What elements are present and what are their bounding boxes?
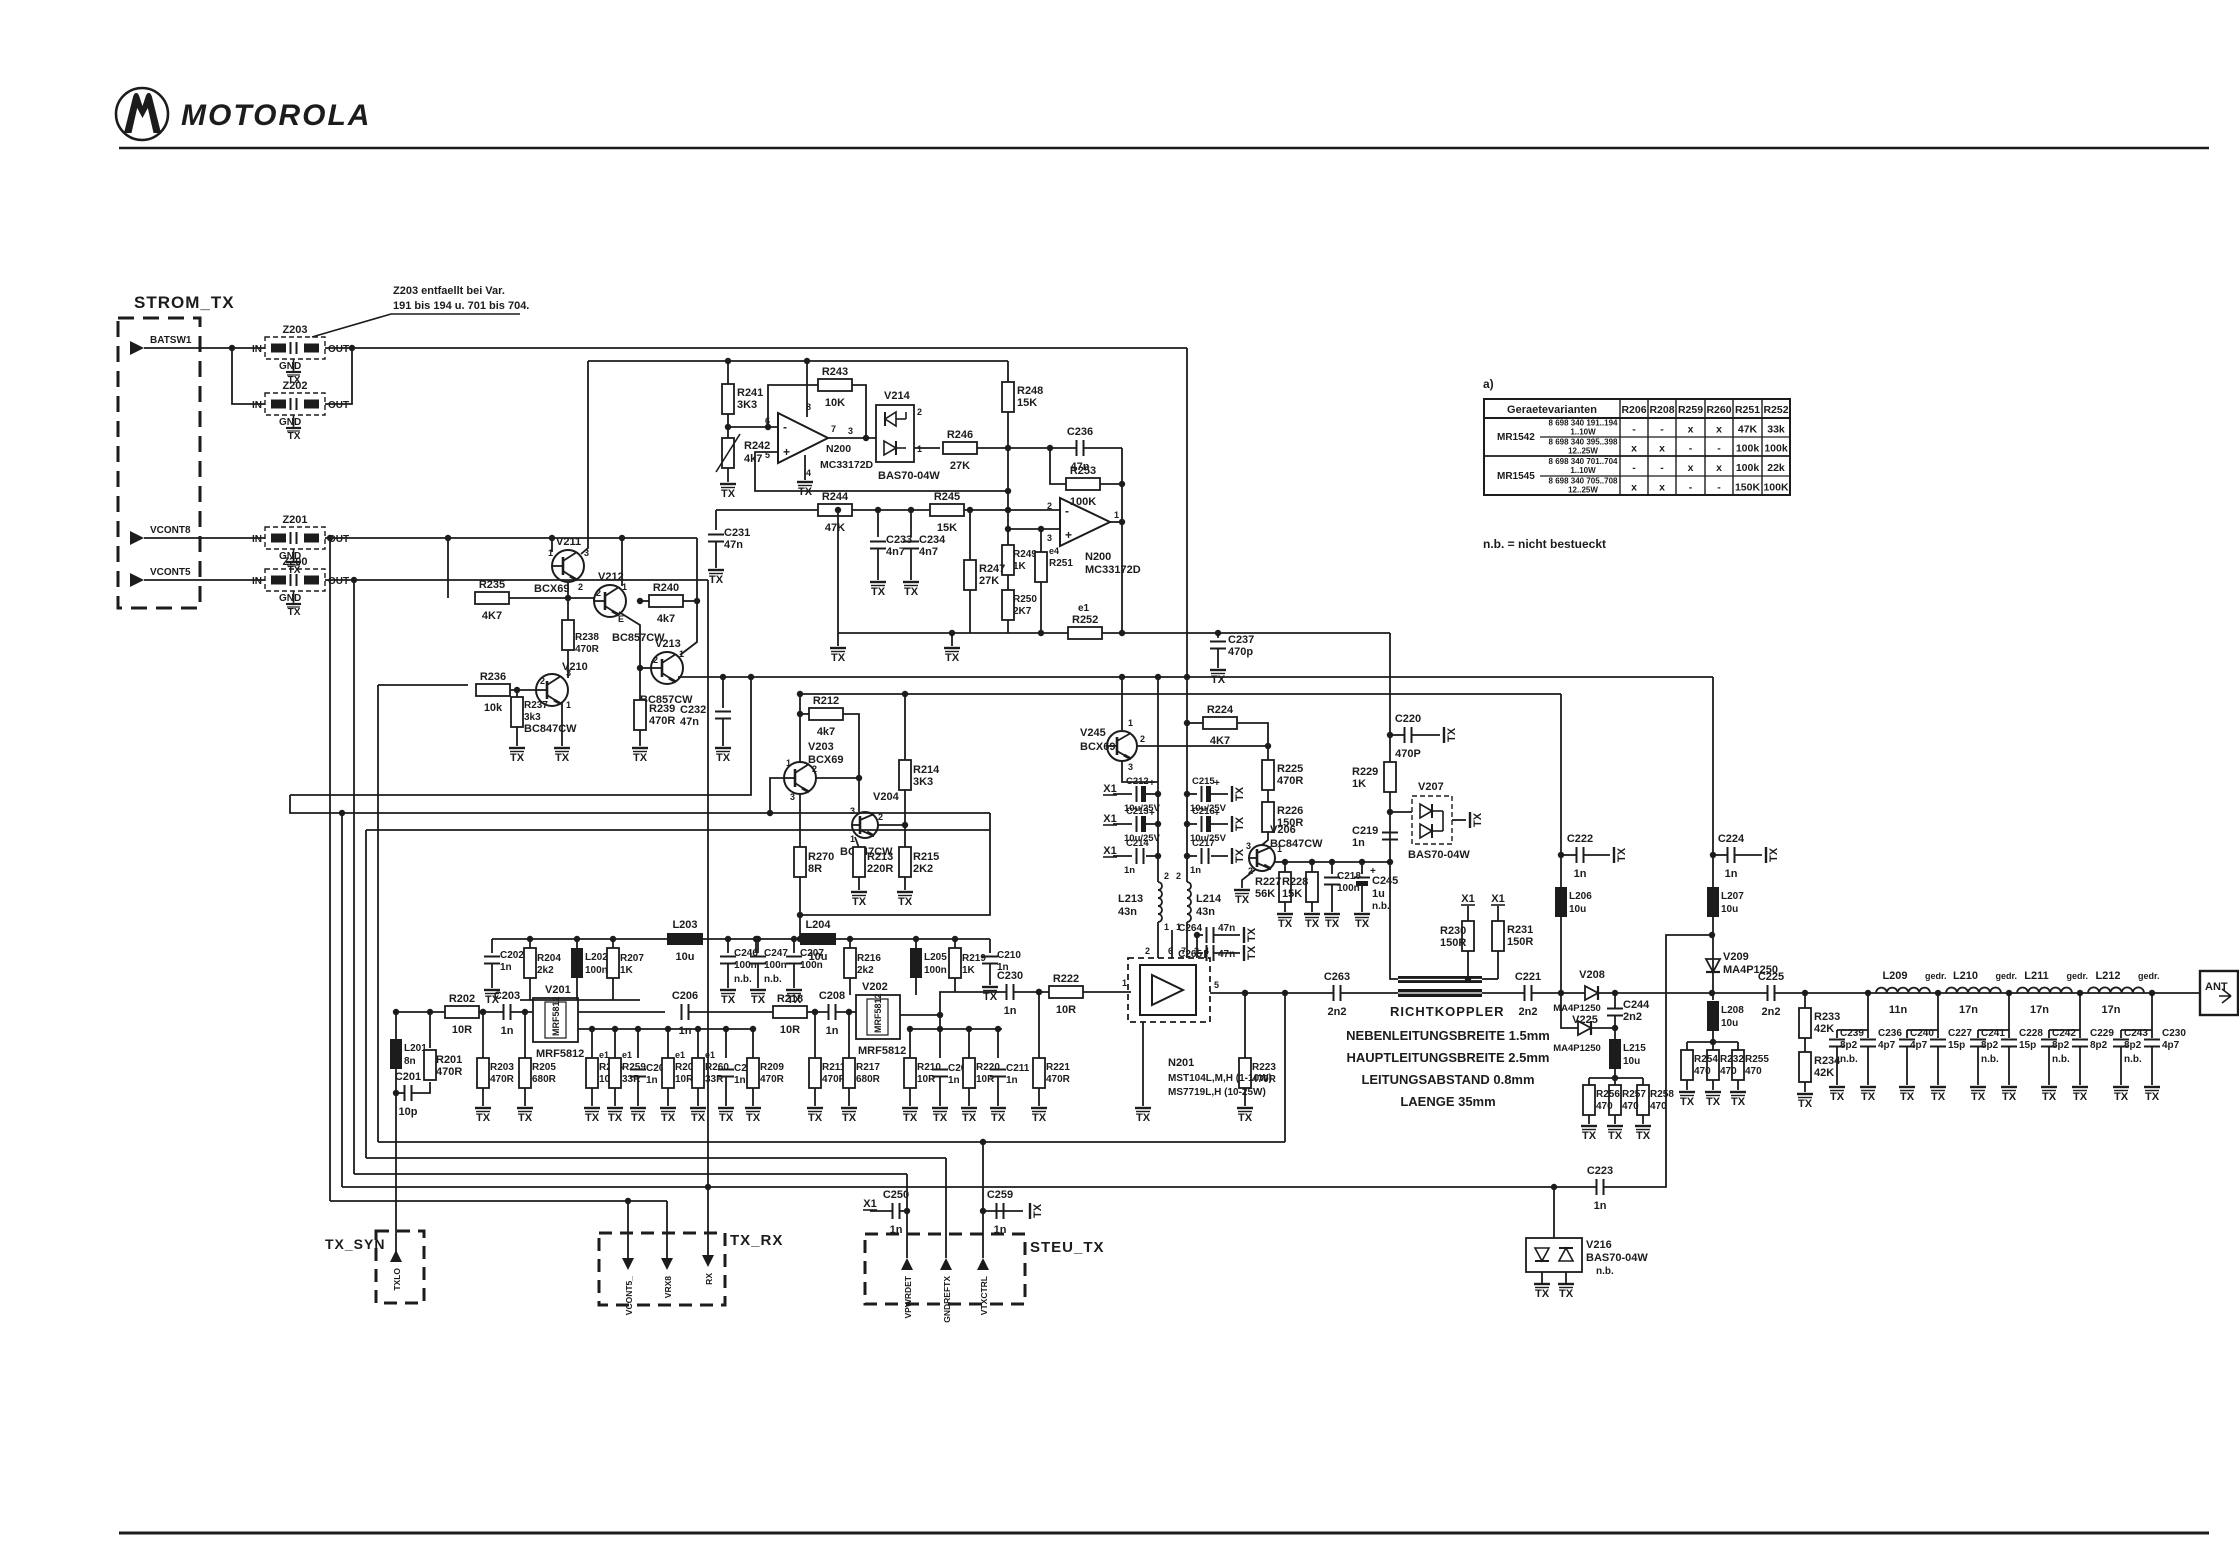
svg-text:TX: TX (1446, 727, 1458, 742)
svg-text:TX: TX (716, 752, 731, 764)
svg-text:R233: R233 (1814, 1011, 1840, 1023)
svg-text:R251: R251 (1735, 404, 1760, 416)
junction (907, 1026, 913, 1032)
wire L202 down (576, 978, 578, 1000)
wire rail to cap (1187, 855, 1197, 857)
wire R25x rail2 (1687, 1041, 1738, 1043)
svg-text:gedr.: gedr. (2138, 971, 2160, 981)
svg-text:R229: R229 (1352, 766, 1378, 778)
junction (612, 1026, 618, 1032)
svg-text:1n: 1n (646, 1075, 658, 1086)
C232 47n (680, 704, 731, 728)
wire LC left cap stub (2120, 1030, 2122, 1038)
svg-text:TX: TX (831, 652, 846, 664)
junction (1155, 853, 1161, 859)
svg-text:2: 2 (578, 582, 583, 592)
svg-text:TX: TX (1032, 1112, 1047, 1124)
connector STROM_TX box (118, 318, 200, 608)
svg-text:2: 2 (540, 676, 545, 686)
ground TX R256 (1581, 1126, 1597, 1142)
svg-text:N200: N200 (826, 443, 851, 455)
C203 1n (494, 990, 520, 1037)
connector STEU_TX box (865, 1234, 1025, 1304)
svg-text:4p7: 4p7 (1910, 1040, 1928, 1051)
wire R247 gnd side (969, 590, 971, 633)
svg-text:TX: TX (746, 1112, 761, 1124)
junction (875, 507, 881, 513)
R236 10k (476, 671, 510, 714)
IC V201 MRF5812 (533, 984, 584, 1060)
svg-text:1..10W: 1..10W (1570, 428, 1596, 437)
wire pin4 up (1204, 950, 1206, 958)
svg-text:TX: TX (721, 488, 736, 500)
R209 470R (747, 1058, 785, 1088)
svg-text:Z200: Z200 (282, 556, 307, 568)
wire V204 out (878, 824, 905, 826)
wire R244 feed (716, 509, 818, 511)
svg-text:100K: 100K (1070, 496, 1096, 508)
junction (1612, 990, 1618, 996)
svg-text:R244: R244 (822, 491, 849, 503)
R241 3K3 (722, 384, 763, 414)
svg-text:X1: X1 (1461, 893, 1474, 905)
svg-text:VPWRDET: VPWRDET (903, 1275, 913, 1318)
wire R253 out (1100, 483, 1122, 485)
wire opamp pin5 loop (755, 452, 1008, 491)
svg-text:TX: TX (808, 1112, 823, 1124)
svg-text:V202: V202 (862, 981, 888, 993)
svg-text:n.b.: n.b. (1840, 1054, 1858, 1065)
ground TX C220 (1444, 727, 1458, 743)
svg-text:47K: 47K (1738, 424, 1758, 436)
junction (753, 936, 759, 942)
svg-text:R215: R215 (913, 851, 939, 863)
svg-text:56K: 56K (1255, 888, 1275, 900)
wire LC left gnd (1977, 1047, 1979, 1085)
svg-text:1K: 1K (962, 965, 976, 976)
wire C202 stub (491, 939, 493, 953)
R203 470R (477, 1058, 515, 1088)
wire LC left gnd (1906, 1047, 1908, 1085)
svg-text:100n: 100n (764, 960, 787, 971)
svg-text:2K7: 2K7 (1013, 606, 1032, 617)
wire C247 gnd (757, 964, 759, 988)
svg-text:1: 1 (1114, 510, 1119, 520)
transistor V206 BC847CW (1246, 824, 1323, 876)
C211 1n (990, 1063, 1030, 1086)
svg-text:TX: TX (719, 1112, 734, 1124)
svg-text:R216: R216 (857, 953, 881, 964)
wire C265 stub (1197, 935, 1203, 953)
svg-text:N201: N201 (1168, 1057, 1194, 1069)
svg-text:C242: C242 (2052, 1028, 2076, 1039)
svg-text:LAENGE 35mm: LAENGE 35mm (1400, 1094, 1495, 1109)
svg-text:GND: GND (279, 361, 301, 372)
svg-text:x: x (1631, 482, 1637, 494)
svg-text:V206: V206 (1270, 824, 1296, 836)
net X1 C212 (1103, 783, 1117, 795)
svg-text:TX: TX (2042, 1091, 2057, 1103)
C225 2n2 (1758, 971, 1784, 1018)
wire to ANT (1775, 992, 2200, 994)
svg-text:C221: C221 (1515, 971, 1541, 983)
svg-text:+: + (783, 445, 790, 459)
wire C244 down (1614, 1016, 1616, 1028)
wire VPWRDET drop (906, 1174, 908, 1258)
R210 10R (904, 1058, 941, 1088)
bus riser to RF line (1284, 993, 1286, 1142)
wire V245 e (1122, 761, 1158, 782)
svg-text:10R: 10R (780, 1024, 800, 1036)
junction (2006, 990, 2012, 996)
svg-text:100n: 100n (585, 965, 608, 976)
svg-text:TX: TX (1768, 847, 1780, 862)
svg-text:470: 470 (1596, 1101, 1613, 1112)
svg-text:BAS70-04W: BAS70-04W (1408, 849, 1470, 861)
svg-text:TX: TX (510, 752, 525, 764)
svg-text:n.b.: n.b. (2052, 1054, 2070, 1065)
svg-text:IN: IN (252, 344, 262, 355)
wire pin3 up (1196, 953, 1198, 958)
wire R256 stub (1588, 1078, 1590, 1085)
header rule (119, 147, 2209, 150)
wire feedback right (852, 385, 866, 438)
svg-text:2: 2 (653, 655, 658, 665)
ground TX R203 (475, 1108, 491, 1124)
svg-text:R250: R250 (1013, 594, 1037, 605)
thermistor R242 4k7 (716, 434, 770, 472)
wire R223 gnd (1244, 1088, 1246, 1106)
svg-text:GND: GND (279, 593, 301, 604)
svg-text:1n: 1n (1004, 1005, 1017, 1017)
junction (694, 598, 700, 604)
R205 680R (519, 1058, 557, 1088)
wire C230 out (1014, 991, 1049, 993)
wire coupler cpl left (1390, 976, 1398, 979)
inductor L207 10u (1707, 887, 1744, 917)
svg-text:TX: TX (1278, 918, 1293, 930)
svg-text:8 698 340 705..708: 8 698 340 705..708 (1549, 477, 1619, 486)
wire V245 c (1121, 677, 1123, 730)
svg-text:n.b.: n.b. (2124, 1054, 2142, 1065)
junction (908, 507, 914, 513)
junction (527, 936, 533, 942)
junction (913, 936, 919, 942)
ground TX C229 (2072, 1087, 2088, 1103)
R221 470R (1033, 1058, 1071, 1088)
ground TX R255 (1730, 1092, 1746, 1108)
junction (797, 711, 803, 717)
svg-text:L209: L209 (1882, 970, 1907, 982)
svg-text:e1: e1 (705, 1050, 715, 1060)
wire fb vertical (1121, 448, 1123, 633)
wire cap gnd (1211, 855, 1228, 857)
wire V225 out (1591, 1027, 1615, 1029)
net X1 R231 (1491, 893, 1505, 905)
pin BATSW1 (130, 341, 144, 355)
wire gnd stub a (837, 633, 839, 646)
junction (1184, 674, 1190, 680)
junction (1155, 791, 1161, 797)
svg-text:15K: 15K (1017, 397, 1037, 409)
junction (1709, 932, 1715, 938)
junction (1387, 732, 1393, 738)
ground TX C222 (1614, 847, 1628, 863)
svg-text:R209: R209 (760, 1062, 784, 1073)
svg-text:MA4P1250: MA4P1250 (1723, 964, 1778, 976)
svg-text:470R: 470R (436, 1066, 462, 1078)
wire V216 gnd2 (1565, 1272, 1567, 1284)
svg-text:R270: R270 (808, 851, 834, 863)
wire R256 gnd (1588, 1115, 1590, 1124)
svg-text:x: x (1659, 443, 1665, 455)
svg-text:R224: R224 (1207, 704, 1234, 716)
junction (1709, 990, 1715, 996)
ground TX C218 (1324, 914, 1340, 930)
svg-text:R258: R258 (1650, 1089, 1674, 1100)
svg-text:47n: 47n (1218, 923, 1235, 934)
wire R211 stub (814, 1012, 816, 1058)
wire C245 stub (1361, 862, 1363, 874)
junction (589, 1026, 595, 1032)
C214 1n (1137, 848, 1144, 864)
R229 1K (1352, 762, 1396, 792)
svg-text:10u: 10u (1721, 1018, 1738, 1029)
svg-text:4k7: 4k7 (817, 726, 835, 738)
svg-text:R220: R220 (976, 1062, 1000, 1073)
ground TX C242 (2041, 1087, 2057, 1103)
svg-text:470P: 470P (1395, 748, 1421, 760)
svg-text:470p: 470p (1228, 646, 1253, 658)
wire R252 out (1102, 632, 1390, 634)
svg-text:C237: C237 (1228, 634, 1254, 646)
note leader line (312, 314, 391, 337)
svg-text:17n: 17n (2030, 1004, 2049, 1016)
R217 680R (843, 1058, 881, 1088)
svg-text:n.b.: n.b. (1596, 1266, 1614, 1277)
svg-text:TX: TX (1246, 927, 1258, 942)
wire L214 to pin (1186, 922, 1188, 958)
svg-text:BCX69: BCX69 (534, 583, 569, 595)
wire R251 stub (1040, 529, 1042, 552)
junction (229, 345, 235, 351)
svg-text:x: x (1688, 424, 1694, 436)
wire R206 gnd (591, 1088, 593, 1106)
transistor V211 BCX69 (534, 536, 589, 595)
ground TX C207 (786, 990, 802, 1006)
pin GNDREFTX (940, 1258, 952, 1323)
ground TX C210 (982, 987, 998, 1003)
svg-text:1: 1 (1122, 978, 1127, 988)
svg-text:TX: TX (721, 994, 736, 1006)
R235 4K7 (475, 579, 509, 622)
wire R221 gnd (1038, 1088, 1040, 1106)
bus supply lower (800, 693, 1561, 695)
junction (637, 598, 643, 604)
wire R210 gnd (909, 1088, 911, 1106)
svg-text:MOTOROLA: MOTOROLA (181, 99, 371, 132)
svg-text:4k7: 4k7 (744, 453, 762, 465)
bus corner to left (290, 677, 751, 795)
wire R259 gnd (614, 1088, 616, 1106)
svg-text:TX: TX (1731, 1096, 1746, 1108)
svg-text:V201: V201 (545, 984, 571, 996)
svg-text:R251: R251 (1049, 558, 1073, 569)
svg-text:V208: V208 (1579, 969, 1605, 981)
C208 1n (819, 990, 845, 1037)
wire TXLO riser (395, 1068, 397, 1253)
R244 47K (818, 491, 852, 534)
svg-text:C259: C259 (987, 1189, 1013, 1201)
diode V208 (1579, 969, 1605, 1000)
junction (1282, 859, 1288, 865)
R258 470 (1637, 1085, 1674, 1115)
svg-text:1n: 1n (1124, 865, 1135, 876)
R218 10R (773, 993, 807, 1036)
junction (812, 1009, 818, 1015)
svg-text:R206: R206 (1621, 404, 1646, 416)
wire C231 gnd (715, 542, 717, 568)
junction (1265, 743, 1271, 749)
svg-text:x: x (1688, 462, 1694, 474)
directional coupler RICHTKOPPLER (1390, 976, 1505, 1019)
wire to R253 (1050, 448, 1066, 484)
svg-text:C207: C207 (800, 948, 824, 959)
wire R204 stub (529, 939, 531, 948)
svg-text:VCONT8: VCONT8 (150, 525, 191, 536)
pin VCONT5 (130, 573, 144, 587)
wire R244 out (852, 509, 930, 511)
ground TX R257 (1607, 1126, 1623, 1142)
C246 100n (720, 948, 758, 985)
wire stub (1284, 862, 1286, 872)
C247 100n (750, 948, 788, 985)
ground TX V206 (1234, 890, 1250, 906)
wire R255 gnd (1737, 1080, 1739, 1090)
junction (1710, 852, 1716, 858)
svg-text:TX: TX (288, 607, 301, 618)
svg-text:2: 2 (1176, 871, 1181, 881)
junction (967, 507, 973, 513)
svg-text:HAUPTLEITUNGSBREITE 2.5mm: HAUPTLEITUNGSBREITE 2.5mm (1347, 1050, 1550, 1065)
filter Z202 (252, 380, 349, 442)
wire R217 gnd (848, 1088, 850, 1106)
svg-text:10R: 10R (452, 1024, 472, 1036)
R259 33R (609, 1050, 646, 1088)
wire V216 gnd1 (1541, 1272, 1543, 1284)
wire V225 in (1561, 993, 1578, 1028)
net X1 C213 (1103, 813, 1117, 825)
C259 1n (987, 1189, 1013, 1236)
svg-text:gedr.: gedr. (1925, 971, 1947, 981)
wire C250 to drop (900, 1210, 907, 1212)
wire X1 to C250 (870, 1210, 893, 1212)
junction (765, 424, 771, 430)
svg-text:R225: R225 (1277, 763, 1303, 775)
svg-text:n.b.: n.b. (734, 974, 752, 985)
wire gnd stub (1284, 902, 1286, 912)
wire C210 stub (989, 939, 991, 953)
wire R237 gnd (516, 727, 518, 746)
wire C233 stub (877, 510, 879, 537)
wire C218 gnd (1331, 885, 1333, 912)
R238 470R (562, 620, 600, 655)
svg-text:n.b. = nicht bestueckt: n.b. = nicht bestueckt (1483, 537, 1606, 551)
svg-text:4k7: 4k7 (657, 613, 675, 625)
C218 100n (1324, 871, 1361, 894)
svg-text:100k: 100k (1764, 443, 1788, 455)
junction (863, 435, 869, 441)
junction (2077, 990, 2083, 996)
svg-text:R259: R259 (1678, 404, 1703, 416)
svg-text:BCX69: BCX69 (1080, 741, 1115, 753)
ground TX R205 (517, 1108, 533, 1124)
wire R207 stub (612, 939, 614, 948)
net X1 C214 (1103, 845, 1117, 857)
wire coupler out (1482, 992, 1524, 994)
svg-text:R213: R213 (867, 851, 893, 863)
svg-text:L206: L206 (1569, 891, 1592, 902)
inductor L204 10u (800, 919, 836, 963)
svg-text:220R: 220R (867, 863, 893, 875)
junction (1005, 507, 1011, 513)
C222 1n (1567, 833, 1593, 880)
wire R235 drop (447, 538, 449, 598)
power module N201 (1128, 958, 1210, 1022)
svg-text:TX: TX (2073, 1091, 2088, 1103)
diode pair V214 BAS70-04W (876, 390, 940, 482)
junction (755, 936, 761, 942)
junction (1119, 519, 1125, 525)
ground TX R210 (902, 1108, 918, 1124)
wire R214 down (904, 790, 906, 848)
svg-text:47n: 47n (680, 716, 699, 728)
svg-text:C208: C208 (819, 990, 845, 1002)
pin VPWRDET (901, 1258, 913, 1319)
wire V245 out (1137, 745, 1268, 747)
wire LC bar (2121, 1029, 2152, 1031)
svg-text:BC847CW: BC847CW (524, 723, 577, 735)
svg-text:TX: TX (1238, 1112, 1253, 1124)
svg-text:IN: IN (252, 576, 262, 587)
connector TX_RX box (599, 1233, 725, 1305)
junction (522, 1009, 528, 1015)
junction (835, 507, 841, 513)
svg-text:C215: C215 (1192, 776, 1215, 787)
svg-text:TX: TX (1136, 1112, 1151, 1124)
svg-text:MC33172D: MC33172D (820, 459, 874, 471)
bus row E (330, 1200, 667, 1202)
wire LC right gnd (2008, 1047, 2010, 1085)
svg-text:C233: C233 (886, 534, 912, 546)
R212 4k7 (809, 695, 843, 738)
wire R258 stub (1642, 1078, 1644, 1085)
svg-text:C245: C245 (1372, 875, 1398, 887)
wire cap to rail (1146, 793, 1158, 795)
junction (1215, 630, 1221, 636)
svg-text:1n: 1n (948, 1075, 960, 1086)
svg-text:BAS70-04W: BAS70-04W (878, 470, 940, 482)
svg-text:Z202: Z202 (282, 380, 307, 392)
junction (902, 822, 908, 828)
C210 1n (982, 950, 1021, 973)
ground TX C232 (715, 748, 731, 764)
wire R248 down (1007, 412, 1009, 633)
inductor L206 10u (1555, 887, 1592, 917)
svg-text:C264: C264 (1178, 923, 1202, 934)
svg-text:2: 2 (917, 407, 922, 417)
diode V225 (1572, 1014, 1598, 1035)
